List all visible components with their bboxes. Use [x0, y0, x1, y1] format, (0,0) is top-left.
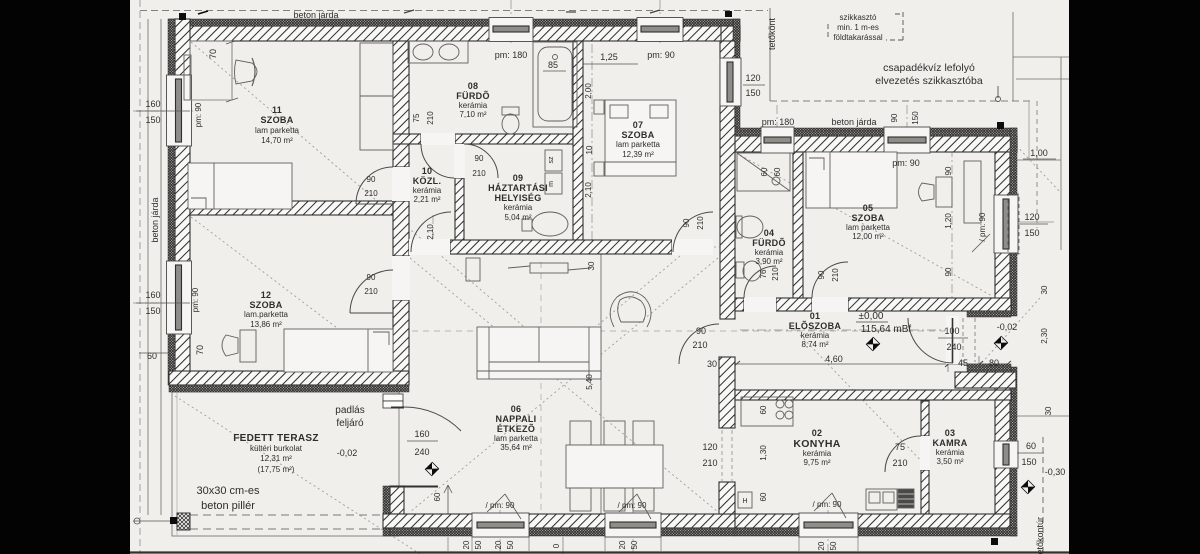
- svg-text:50: 50: [829, 541, 838, 550]
- svg-text:70: 70: [208, 49, 218, 59]
- terrace pillar: [177, 513, 190, 530]
- door arc furdo08: [421, 144, 455, 178]
- csapadekviz leader: [997, 86, 999, 98]
- entry door opening niche: [946, 316, 959, 364]
- left bottom leader circle: [133, 520, 177, 522]
- door opening kamra: [920, 436, 930, 470]
- svg-text:pm: 90: pm: 90: [647, 50, 675, 60]
- svg-text:20: 20: [494, 540, 503, 549]
- south wall nappali: [383, 514, 735, 528]
- svg-text:beton járda: beton járda: [831, 117, 876, 127]
- south wall insulation left part: [390, 528, 735, 536]
- svg-text:beton járda: beton járda: [293, 10, 338, 20]
- ground line bottom: [130, 551, 1069, 553]
- svg-text:150: 150: [1024, 228, 1039, 238]
- svg-text:beton pillér: beton pillér: [201, 500, 255, 512]
- svg-text:50: 50: [474, 540, 483, 549]
- svg-text:5,04 m²: 5,04 m²: [504, 213, 531, 222]
- window room11 west 160/150: [167, 75, 192, 146]
- svg-text:lam parketta: lam parketta: [846, 223, 891, 232]
- level marker kamra out: [1021, 480, 1035, 494]
- svg-text:75: 75: [412, 113, 421, 122]
- svg-text:pm: 90: pm: 90: [892, 158, 920, 168]
- svg-text:210: 210: [831, 268, 840, 282]
- svg-text:50: 50: [630, 540, 639, 549]
- dining chairs top: [570, 421, 591, 445]
- svg-text:160: 160: [145, 99, 160, 109]
- east05 window leader: [972, 234, 990, 252]
- svg-text:04: 04: [764, 228, 775, 238]
- main wing north wall: [169, 26, 740, 41]
- svg-text:90: 90: [475, 154, 484, 163]
- svg-text:kerámia: kerámia: [504, 203, 533, 212]
- level marker eloszoba: [866, 337, 880, 351]
- room11 desk: [190, 41, 232, 100]
- svg-text:lam parketta: lam parketta: [616, 140, 661, 149]
- kamra west wall segs: [921, 401, 929, 436]
- dimension line left room11 window: [231, 41, 233, 100]
- nappali armchair: [610, 292, 651, 327]
- svg-text:60: 60: [759, 405, 768, 414]
- svg-text:160: 160: [145, 290, 160, 300]
- door opening kozl-haztartasi: [454, 144, 465, 178]
- svg-text:60: 60: [760, 167, 769, 176]
- line between 120/150 right: [1018, 223, 1048, 225]
- svg-text:35,64 m²: 35,64 m²: [500, 443, 532, 452]
- survey marker bottom right: [991, 538, 998, 545]
- svg-text:120: 120: [1024, 212, 1039, 222]
- svg-text:85: 85: [548, 60, 558, 70]
- eloszoba dashed floor line: [412, 330, 945, 332]
- room11 bed: [188, 163, 292, 209]
- door arc haztartasi: [464, 144, 498, 178]
- svg-text:13,86 m²: 13,86 m²: [250, 320, 282, 329]
- nappali north wall: [450, 240, 672, 254]
- door arc room11: [356, 167, 393, 204]
- terrace slab outline: [172, 392, 399, 536]
- svg-text:09: 09: [513, 173, 524, 183]
- svg-text:földtakarással: földtakarással: [833, 33, 883, 42]
- svg-text:4,60: 4,60: [825, 354, 843, 364]
- door opening furdo08: [421, 133, 455, 145]
- svg-text:08: 08: [468, 81, 479, 91]
- svg-text:5,40: 5,40: [585, 374, 594, 390]
- svg-text:90: 90: [817, 270, 826, 279]
- niche top insulation: [967, 311, 1011, 317]
- svg-text:11: 11: [272, 105, 282, 115]
- svg-text:90: 90: [890, 113, 899, 122]
- svg-text:kültéri burkolat: kültéri burkolat: [250, 444, 303, 453]
- svg-text:30: 30: [707, 359, 717, 369]
- window nappali south 1 pm90: [472, 513, 529, 537]
- svg-text:90: 90: [682, 218, 691, 227]
- door arc kozl: [411, 212, 451, 252]
- survey marker terrace sw: [170, 517, 177, 524]
- svg-text:1,25: 1,25: [600, 52, 618, 62]
- left black bar: [0, 0, 130, 554]
- door opening room07: [672, 239, 713, 255]
- niche bottom wall: [955, 372, 1016, 388]
- door arc entry: [908, 318, 953, 363]
- svg-text:±0,00: ±0,00: [859, 311, 884, 322]
- door opening furdo04: [744, 297, 776, 312]
- svg-text:m: m: [548, 181, 555, 187]
- survey marker top-left: [179, 13, 186, 20]
- svg-text:lam parketta: lam parketta: [255, 126, 300, 135]
- svg-text:150: 150: [145, 306, 160, 316]
- room05 desk: [936, 177, 952, 207]
- svg-text:2,30: 2,30: [1040, 328, 1049, 344]
- opening nappali-konyha threshold dashes: [721, 430, 723, 481]
- svg-text:HÁZTARTÁSI: HÁZTARTÁSI: [488, 183, 548, 193]
- svg-text:210: 210: [692, 340, 707, 350]
- svg-text:30x30 cm-es: 30x30 cm-es: [197, 485, 260, 497]
- svg-text:sz: sz: [548, 156, 555, 164]
- level marker entry: [994, 336, 1008, 350]
- north wall insulation: [169, 19, 740, 26]
- svg-text:210: 210: [364, 189, 378, 198]
- haztartasi basin: [532, 212, 568, 236]
- dining chairs bottom: [570, 488, 591, 511]
- svg-text:07: 07: [633, 120, 644, 130]
- window konyha south pm90: [799, 513, 858, 537]
- svg-text:lam parketta: lam parketta: [494, 434, 539, 443]
- svg-text:20: 20: [817, 541, 826, 550]
- survey marker ne corner: [725, 11, 732, 17]
- kozl/haztartasi divider: [455, 178, 464, 254]
- svg-text:210: 210: [364, 287, 378, 296]
- east wall upper insulation: [733, 19, 740, 136]
- svg-text:8,74 m²: 8,74 m²: [801, 340, 828, 349]
- furdo08 sink1: [413, 44, 433, 60]
- svg-text:03: 03: [945, 428, 956, 438]
- beam symbol: [530, 263, 568, 273]
- bath south wall (furdo08): [393, 134, 421, 144]
- door arc kamra: [885, 436, 921, 472]
- svg-text:10: 10: [422, 166, 433, 176]
- svg-text:12,00 m²: 12,00 m²: [852, 232, 884, 241]
- property line left vertical dashed: [139, 0, 141, 554]
- furdo08 bathtub: [533, 42, 577, 127]
- center dash-dot lines through windows: [133, 0, 952, 554]
- walkway edge left double lines: [147, 19, 149, 515]
- svg-text:(17,75 m²): (17,75 m²): [258, 465, 295, 474]
- property line top dashed: [140, 10, 768, 12]
- window right wing pm180: [761, 127, 794, 153]
- svg-text:ELÕSZOBA: ELÕSZOBA: [789, 321, 842, 331]
- plan background: [130, 0, 1069, 554]
- line between 160/240 terrace door: [407, 440, 438, 442]
- svg-text:kerámia: kerámia: [801, 331, 830, 340]
- right wing west wall seg2: [719, 357, 735, 428]
- OPENINGS: [167, 18, 1020, 538]
- svg-text:240: 240: [946, 342, 961, 352]
- svg-text:feljáró: feljáró: [336, 418, 364, 429]
- svg-text:KAMRA: KAMRA: [933, 438, 968, 448]
- room07 bed: [605, 100, 676, 176]
- svg-text:7,10 m²: 7,10 m²: [459, 110, 486, 119]
- dining table: [566, 445, 663, 488]
- door arc furdo04: [744, 266, 776, 298]
- svg-text:14,70 m²: 14,70 m²: [261, 136, 293, 145]
- window nappali south 2 pm90: [605, 513, 661, 537]
- svg-text:30: 30: [1044, 406, 1053, 415]
- door arc room05: [812, 262, 848, 298]
- furdo04/room05 divider: [793, 152, 803, 298]
- svg-text:-0,02: -0,02: [997, 322, 1018, 332]
- dimension line 5,40 nappali vertical: [600, 254, 602, 514]
- furdo08 toilet: [502, 107, 519, 115]
- room12 south wall insulation: [169, 385, 409, 392]
- svg-text:2,00: 2,00: [584, 83, 593, 99]
- svg-text:05: 05: [863, 203, 874, 213]
- svg-text:kerámia: kerámia: [459, 101, 488, 110]
- svg-text:70: 70: [195, 345, 205, 355]
- room12 south wall: [169, 371, 409, 385]
- svg-text:tetőkontúr: tetőkontúr: [1035, 517, 1045, 554]
- svg-text:kerámia: kerámia: [936, 448, 965, 457]
- svg-text:06: 06: [511, 404, 522, 414]
- svg-text:02: 02: [812, 428, 823, 438]
- svg-text:10: 10: [585, 145, 594, 154]
- svg-text:60: 60: [433, 492, 442, 501]
- room11 wardrobe: [360, 43, 393, 150]
- svg-text:150: 150: [911, 111, 920, 125]
- svg-text:90: 90: [944, 267, 953, 276]
- furdo04 washbasin: [737, 216, 763, 238]
- svg-text:12,39 m²: 12,39 m²: [622, 150, 654, 159]
- window right wing pm90: [884, 127, 930, 153]
- window room07 east 120/150: [720, 58, 741, 106]
- konyha stove: [776, 400, 784, 408]
- svg-text:elvezetés szikkasztóba: elvezetés szikkasztóba: [875, 75, 983, 87]
- svg-text:115,64 mBf: 115,64 mBf: [861, 324, 912, 335]
- west wall insulation: [168, 19, 175, 385]
- svg-text:210: 210: [892, 458, 907, 468]
- svg-text:90: 90: [696, 326, 706, 336]
- door opening kozl-nappali: [409, 239, 450, 255]
- svg-text:45: 45: [958, 358, 968, 368]
- svg-text:padlás: padlás: [335, 405, 364, 416]
- east insulation upper: [1010, 128, 1017, 316]
- door opening room05: [812, 297, 848, 312]
- extra dim ticks top: [404, 10, 660, 13]
- svg-text:kerámia: kerámia: [803, 449, 832, 458]
- door arc room12: [350, 270, 393, 313]
- window kamra east 60/150: [994, 441, 1018, 468]
- svg-text:/ pm: 90: / pm: 90: [978, 212, 987, 241]
- niche bottom insulation: [967, 364, 1011, 372]
- survey marker right wing wall: [997, 122, 1004, 129]
- terrace roof dashed lines: [190, 514, 385, 516]
- right wing north wall: [733, 136, 1017, 152]
- svg-text:210: 210: [696, 216, 705, 230]
- room11 radiator: [184, 55, 191, 100]
- svg-text:-0,02: -0,02: [337, 448, 358, 458]
- room11 desk chair: [235, 60, 258, 84]
- right wing west wall seg3: [719, 482, 735, 514]
- szikkaszto dashed bracket: [886, 12, 903, 40]
- terrace door threshold: [391, 486, 438, 488]
- svg-text:75: 75: [895, 442, 905, 452]
- roof contour line top-right dashed: [770, 100, 1032, 102]
- roof diagonal dotted lines: [175, 42, 1060, 554]
- svg-text:pm: 180: pm: 180: [495, 50, 528, 60]
- wall vertical segment B: [393, 201, 409, 256]
- niche dim dashes 100/240: [962, 318, 964, 362]
- furdo04 wc: [736, 262, 744, 278]
- svg-text:20: 20: [462, 540, 471, 549]
- room12 chair: [222, 335, 238, 356]
- CONSTRUCTION: [130, 0, 1069, 554]
- svg-text:240: 240: [414, 447, 429, 457]
- svg-text:60: 60: [759, 492, 768, 501]
- svg-text:1,00: 1,00: [1030, 148, 1048, 158]
- svg-text:9,75 m²: 9,75 m²: [803, 458, 830, 467]
- right wing south insulation: [735, 528, 1017, 536]
- line under 100 entry: [938, 337, 968, 339]
- svg-text:FÜRDÕ: FÜRDÕ: [456, 91, 490, 101]
- window leader diagonals bottom: [487, 494, 505, 512]
- dim line 1,25 bath: [578, 63, 638, 65]
- svg-text:KÖZL.: KÖZL.: [413, 176, 442, 186]
- svg-text:210: 210: [702, 458, 717, 468]
- right wing east wall upper: [995, 152, 1010, 311]
- svg-text:min. 1 m-es: min. 1 m-es: [837, 23, 879, 32]
- svg-text:80: 80: [989, 358, 999, 368]
- eloszoba south wall: [735, 390, 1011, 400]
- svg-text:-0,30: -0,30: [1045, 467, 1066, 477]
- window room12 west 160/150: [167, 261, 192, 334]
- haztartasi washer sz: [545, 150, 562, 171]
- door arc room07: [673, 212, 713, 252]
- WALLS: [168, 19, 1017, 536]
- right black bar: [1069, 0, 1200, 554]
- svg-text:150: 150: [745, 88, 760, 98]
- svg-text:2,10: 2,10: [426, 224, 435, 240]
- svg-text:3,90 m²: 3,90 m²: [755, 257, 782, 266]
- haztartasi/room07 partition: [573, 41, 583, 240]
- svg-text:beton járda: beton járda: [150, 197, 160, 242]
- svg-text:pm: 90: pm: 90: [191, 287, 200, 312]
- room12 bed: [284, 329, 393, 372]
- line under 1,00: [1023, 158, 1056, 160]
- svg-text:NAPPALI: NAPPALI: [496, 414, 537, 424]
- room05 bed: [806, 152, 897, 208]
- svg-text:pm: 180: pm: 180: [762, 117, 795, 127]
- konyha radiator H: [738, 492, 752, 508]
- door opening room11: [392, 167, 410, 201]
- window room05 east pm90: [994, 194, 1019, 254]
- svg-text:tetőkönt: tetőkönt: [767, 17, 777, 50]
- svg-text:1,20: 1,20: [944, 213, 953, 229]
- svg-text:lam.parketta: lam.parketta: [244, 310, 289, 319]
- svg-text:120: 120: [702, 442, 717, 452]
- svg-text:60: 60: [773, 167, 782, 176]
- konyha sink unit: [866, 489, 897, 510]
- svg-text:120: 120: [745, 73, 760, 83]
- terrace door step stub: [383, 394, 403, 401]
- svg-text:3,50 m²: 3,50 m²: [936, 457, 963, 466]
- window room07 pm90 top: [637, 18, 683, 42]
- svg-text:30: 30: [587, 261, 596, 270]
- svg-text:210: 210: [426, 111, 435, 125]
- svg-text:150: 150: [1021, 457, 1036, 467]
- svg-text:pm: 90: pm: 90: [194, 102, 203, 127]
- window bath pm180 top: [489, 18, 533, 42]
- right wing east wall lower: [995, 367, 1010, 514]
- svg-text:100: 100: [944, 326, 959, 336]
- svg-text:30: 30: [1040, 285, 1049, 294]
- right roof lines: [1012, 12, 1014, 101]
- dim ticks 4,60: [733, 361, 1011, 367]
- svg-text:ÉTKEZÕ: ÉTKEZÕ: [497, 424, 535, 434]
- svg-text:12: 12: [261, 290, 272, 300]
- svg-text:2,21 m²: 2,21 m²: [413, 195, 440, 204]
- svg-text:12,31 m²: 12,31 m²: [260, 454, 292, 463]
- konyha counter: [741, 397, 793, 426]
- svg-text:0: 0: [552, 543, 561, 548]
- main wing east wall upper: [721, 26, 735, 152]
- svg-text:20: 20: [618, 540, 627, 549]
- nappali west corner wall at terrace: [390, 486, 404, 514]
- svg-text:HELYISÉG: HELYISÉG: [494, 193, 541, 203]
- right wing north insulation: [733, 128, 1017, 136]
- svg-text:210: 210: [771, 267, 780, 281]
- svg-text:160: 160: [414, 429, 429, 439]
- svg-text:H: H: [742, 498, 747, 505]
- wall rooms/bath vertical segment A: [393, 41, 409, 167]
- svg-text:210: 210: [472, 169, 486, 178]
- room05 cabinet: [964, 161, 981, 223]
- room12 desk: [240, 330, 256, 362]
- svg-text:SZOBA: SZOBA: [852, 213, 885, 223]
- svg-text:SZOBA: SZOBA: [261, 115, 294, 125]
- wall room11-room12: [190, 201, 393, 215]
- line under 120/150 east07: [743, 84, 765, 86]
- dash-dot through door openings nappali north: [409, 246, 451, 248]
- east insulation lower: [1010, 367, 1017, 536]
- level marker terrace: [425, 462, 439, 476]
- svg-text:kerámia: kerámia: [413, 186, 442, 195]
- svg-text:60: 60: [1026, 441, 1036, 451]
- furdo08 counter: [408, 41, 468, 63]
- svg-text:150: 150: [145, 115, 160, 125]
- underline +-0,00: [856, 321, 888, 323]
- svg-text:kerámia: kerámia: [755, 248, 784, 257]
- svg-text:SZOBA: SZOBA: [250, 300, 283, 310]
- dim line 60 nappali sw: [447, 485, 449, 514]
- svg-text:FEDETT TERASZ: FEDETT TERASZ: [233, 433, 319, 444]
- haztartasi washer m: [545, 173, 562, 194]
- line between 60/150 kamra: [1017, 452, 1044, 454]
- room05 chair: [919, 183, 935, 201]
- bottom-right roof dashed vertical: [1042, 437, 1044, 554]
- svg-text:76: 76: [759, 269, 768, 278]
- furdo04 shower: [737, 153, 790, 191]
- eloszoba north wall segs: [735, 298, 744, 311]
- svg-text:90: 90: [367, 175, 376, 184]
- wall vertical segment C: [393, 300, 409, 371]
- room07 nightstand: [594, 100, 604, 114]
- dim lines left stacks: [136, 110, 190, 112]
- svg-text:SZOBA: SZOBA: [622, 130, 655, 140]
- nappali sofa: [477, 327, 601, 379]
- svg-text:90: 90: [944, 166, 953, 175]
- west wall: [175, 19, 190, 385]
- svg-text:2,10: 2,10: [584, 182, 593, 198]
- right wing south wall: [735, 514, 1010, 528]
